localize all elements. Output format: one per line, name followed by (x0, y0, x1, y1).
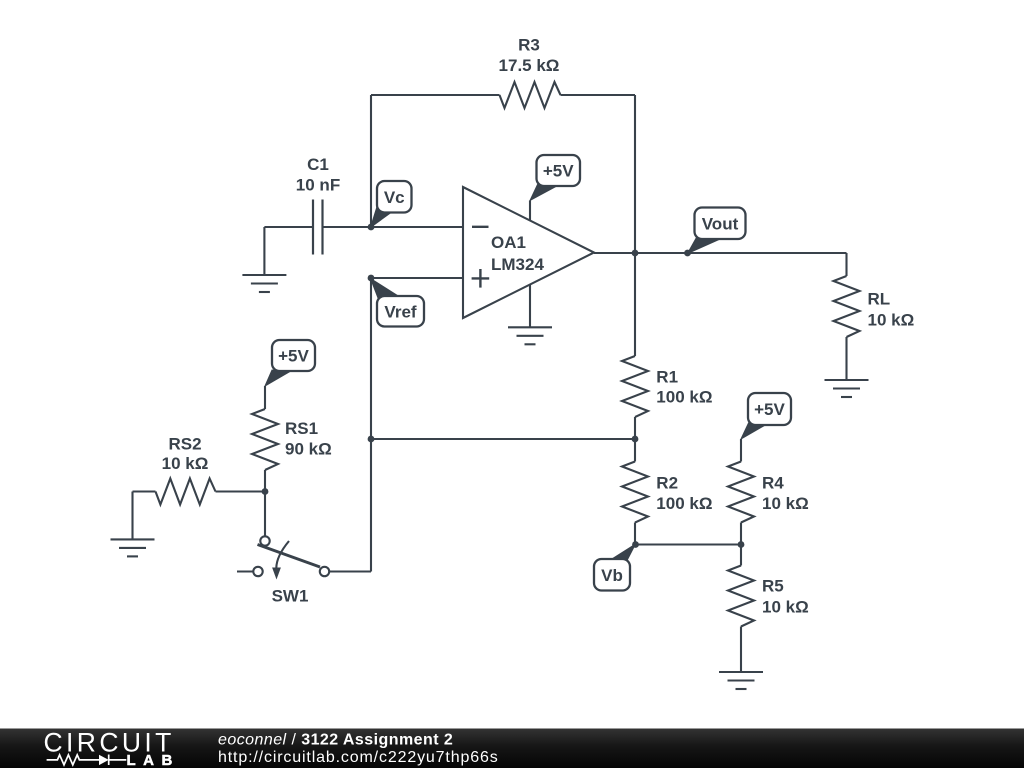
svg-text:10 kΩ: 10 kΩ (762, 494, 809, 513)
svg-text:Vout: Vout (702, 214, 739, 233)
svg-text:C1: C1 (307, 155, 329, 174)
svg-text:10 kΩ: 10 kΩ (868, 311, 915, 330)
svg-text:Vref: Vref (384, 302, 416, 321)
svg-text:SW1: SW1 (272, 587, 309, 606)
svg-text:100 kΩ: 100 kΩ (656, 494, 712, 513)
svg-text:R2: R2 (656, 474, 678, 493)
svg-text:Vc: Vc (384, 188, 405, 207)
svg-text:R4: R4 (762, 474, 784, 493)
svg-text:+5V: +5V (754, 400, 785, 419)
svg-text:+5V: +5V (543, 162, 574, 181)
svg-text:LM324: LM324 (491, 255, 544, 274)
svg-text:LAB: LAB (127, 752, 180, 768)
svg-text:R3: R3 (518, 35, 540, 54)
svg-text:17.5 kΩ: 17.5 kΩ (499, 56, 560, 75)
svg-text:OA1: OA1 (491, 233, 526, 252)
svg-text:http://circuitlab.com/c222yu7t: http://circuitlab.com/c222yu7thp66s (218, 749, 499, 766)
svg-text:10 kΩ: 10 kΩ (162, 454, 209, 473)
svg-text:eoconnel / 3122 Assignment 2: eoconnel / 3122 Assignment 2 (218, 732, 453, 749)
svg-text:100 kΩ: 100 kΩ (656, 388, 712, 407)
svg-text:+5V: +5V (278, 347, 309, 366)
svg-text:RL: RL (868, 290, 891, 309)
svg-text:90 kΩ: 90 kΩ (285, 440, 332, 459)
svg-text:RS1: RS1 (285, 419, 318, 438)
svg-text:10 nF: 10 nF (296, 175, 340, 194)
svg-text:10 kΩ: 10 kΩ (762, 598, 809, 617)
svg-text:RS2: RS2 (168, 435, 201, 454)
svg-text:R5: R5 (762, 577, 784, 596)
svg-text:Vb: Vb (601, 566, 623, 585)
svg-text:R1: R1 (656, 367, 678, 386)
